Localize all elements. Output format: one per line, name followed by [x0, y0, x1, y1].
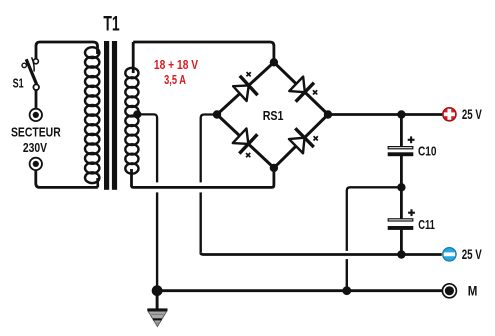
wire M rail: [157, 289, 442, 292]
wire bottom terminal to primary bottom: [36, 171, 98, 188]
svg-text:3,5 A: 3,5 A: [164, 72, 186, 87]
label 18 + 18 V / 3,5 A: [154, 57, 198, 87]
terminal M: [442, 284, 456, 298]
svg-text:C11: C11: [418, 217, 435, 232]
diode RS1 bottom-right: [287, 121, 322, 156]
wire -25V rail: [201, 253, 442, 255]
svg-text:RS1: RS1: [263, 109, 284, 123]
capacitor C10: [388, 136, 415, 156]
svg-text:S1: S1: [13, 75, 24, 90]
wire secondary top to bridge top: [133, 42, 274, 59]
terminal +25V: [443, 108, 456, 121]
wire bridge left node down to -25V rail (with break): [201, 115, 217, 253]
wire C11 bottom lead: [400, 230, 403, 255]
node bridge top: [270, 58, 278, 66]
terminal -25V: [443, 248, 456, 261]
diode RS1 top-right: [287, 74, 322, 109]
node M-centertap junction: [152, 285, 163, 296]
wire secondary bottom to bridge bottom: [132, 168, 274, 188]
transformer T1 core: [104, 41, 117, 190]
terminal SECTEUR bottom: [30, 158, 42, 170]
wire C10 top lead: [400, 115, 403, 147]
svg-text:SECTEUR: SECTEUR: [11, 124, 61, 139]
wire C10 bottom lead: [400, 156, 403, 219]
svg-text:18 + 18 V: 18 + 18 V: [154, 57, 198, 72]
node C10-C11 midpoint: [397, 183, 405, 191]
svg-text:25 V: 25 V: [462, 247, 482, 262]
wire center tap down to M rail (with break): [137, 114, 157, 290]
node M-midpoint junction: [342, 286, 351, 295]
node C10 top junction: [397, 110, 405, 118]
wire midpoint to M rail (with break): [347, 187, 402, 290]
svg-text:25 V: 25 V: [462, 107, 482, 122]
node C11 bottom junction: [397, 250, 405, 258]
transformer T1 secondary winding: [125, 42, 138, 186]
wire switch to top terminal: [35, 90, 38, 108]
bridge rectifier RS1 diamond: [217, 62, 328, 168]
switch S1: [22, 57, 39, 90]
transformer T1 primary winding: [85, 47, 99, 187]
wire +25V rail: [328, 113, 442, 116]
node bridge left: [213, 110, 221, 118]
svg-text:C10: C10: [418, 143, 437, 158]
ground: [147, 291, 167, 327]
label SECTEUR 230V: [11, 124, 61, 155]
node center tap: [133, 110, 141, 118]
svg-text:230V: 230V: [23, 140, 47, 155]
wire primary top from switch to transformer: [36, 42, 98, 59]
svg-text:T1: T1: [103, 12, 120, 35]
diode RS1 bottom-left: [231, 126, 265, 161]
svg-text:M: M: [468, 284, 478, 299]
capacitor C11: [388, 209, 415, 230]
node bridge right: [324, 110, 332, 118]
diode RS1 top-left: [231, 69, 265, 104]
node bridge bottom: [270, 164, 278, 172]
terminal SECTEUR top: [30, 109, 42, 121]
